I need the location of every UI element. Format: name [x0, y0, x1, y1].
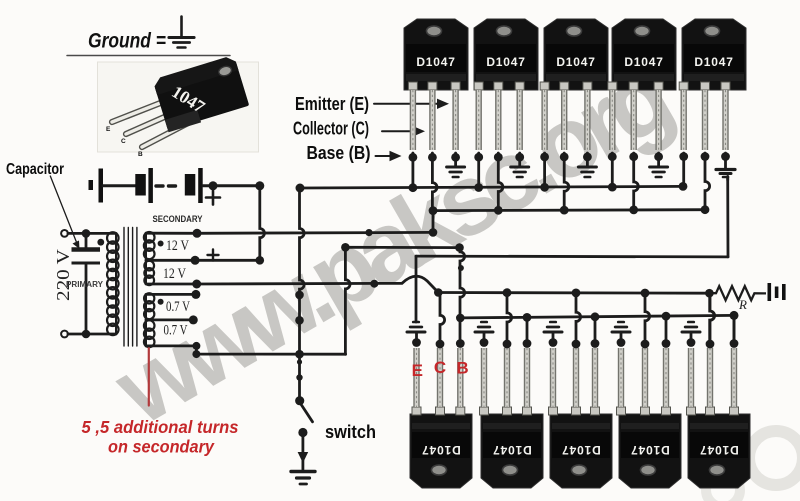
wire center tap to battery positive	[146, 256, 264, 265]
wire 12V top tap	[146, 229, 202, 238]
svg-text:PRIMARY: PRIMARY	[66, 280, 104, 289]
red pointer line from added turns to label	[148, 347, 150, 406]
wire emitter line corner down to bottom ground	[415, 256, 418, 322]
switch SW1 blade	[295, 396, 312, 422]
label R	[738, 297, 747, 312]
wire Q10 emitter to ground	[690, 333, 693, 343]
transistor Q1 (D1047, top row)	[404, 19, 468, 150]
label 0.7 V (third tap)	[166, 299, 190, 315]
wire Q9 emitter to ground	[620, 333, 623, 343]
capacitor C1 across primary	[72, 233, 101, 334]
junction dots on top collector bus	[429, 205, 710, 215]
transformer core	[124, 228, 137, 347]
wire Q8 base to bottom base bus	[594, 317, 597, 344]
divider line under legend	[67, 55, 230, 57]
svg-text:E: E	[412, 361, 423, 380]
ground (Q10 emitter, inverted)	[682, 322, 700, 332]
label 220 V (primary voltage)	[53, 249, 73, 301]
transistor Q8 (D1047, bottom row)	[549, 348, 613, 488]
svg-text:D1047: D1047	[556, 55, 595, 69]
wire emitter common line	[416, 255, 728, 259]
svg-text:0.7 V: 0.7 V	[166, 299, 190, 315]
wire switch vertical from base bus	[295, 188, 304, 401]
label Ground legend text	[88, 30, 166, 53]
wire Q3 emitter to ground	[586, 153, 589, 167]
wire Q7 base to bottom base bus	[526, 317, 529, 343]
svg-text:D1047: D1047	[699, 443, 738, 457]
pin dots Q6	[412, 338, 465, 348]
label switch	[325, 422, 376, 442]
ground (Q9 emitter, inverted)	[612, 322, 630, 332]
transformer primary terminal (top, open circle)	[61, 230, 68, 237]
wire Q7 collector to bottom collector bus	[507, 293, 512, 344]
node dot right of capacitor	[97, 239, 104, 246]
wire switch to ground with arrowhead	[298, 433, 309, 470]
wire 12V-top line to top collector bus	[197, 211, 437, 237]
svg-text:SECONDARY: SECONDARY	[153, 214, 204, 225]
wire Q9 collector to bottom collector bus	[645, 293, 650, 344]
wire Q8 collector to bottom collector bus	[576, 293, 581, 344]
wire 0.7V-bottom feed up (left vertical)	[345, 247, 350, 354]
wire Q5 emitter down	[726, 153, 728, 180]
wire Q2 base to top base bus	[477, 153, 480, 187]
svg-text:Base (B): Base (B)	[307, 143, 371, 163]
ground (Q6 emitter, inverted)	[407, 322, 425, 332]
wire Q3 base to top base bus	[543, 153, 546, 187]
wire Q1 base to top base bus	[411, 153, 414, 187]
svg-text:5 ,5 additional turns: 5 ,5 additional turns	[82, 417, 239, 437]
wire Q10 collector to bottom collector bus	[710, 293, 715, 344]
wire bottom base bus end down to Q10 base	[733, 315, 736, 343]
svg-text:on secondary: on secondary	[108, 437, 215, 457]
label B (red, base pin)	[456, 359, 468, 378]
svg-text:0.7 V: 0.7 V	[164, 323, 188, 339]
transistor Q10 (D1047, bottom row)	[687, 348, 751, 488]
pin dots Q5	[679, 152, 730, 161]
wire resistor node down to Q10 collector	[710, 293, 715, 344]
transistor Q5 (D1047, top row)	[679, 19, 746, 150]
wire Q6 collector up with hop	[440, 293, 445, 345]
pin dots Q7	[480, 338, 532, 348]
ground (below switch)	[291, 472, 315, 485]
svg-text:D1047: D1047	[416, 55, 455, 69]
junction dots on bottom collector bus	[503, 288, 650, 297]
wire 12V bottom tap	[146, 280, 201, 289]
battery B1 (cells in series)	[89, 168, 203, 203]
wire right emitter vertical	[726, 177, 729, 257]
svg-text:D1047: D1047	[624, 55, 663, 69]
wire Q2 collector to top collector bus	[498, 153, 503, 210]
wire Q8 emitter to ground	[552, 333, 555, 343]
svg-text:C: C	[121, 138, 126, 145]
switch SW1 bottom terminal	[298, 428, 307, 437]
wire Q4 emitter to ground	[657, 153, 660, 167]
label + (battery positive)	[206, 191, 220, 205]
wire battery positive vertical	[260, 186, 265, 260]
wire Q6 emitter to ground	[415, 333, 418, 343]
wire top base bus	[296, 184, 684, 193]
transistor Q9 (D1047, bottom row)	[617, 348, 682, 488]
label Emitter (E) with arrow	[295, 94, 449, 114]
node dot at 0.7V tap	[158, 299, 164, 305]
junction dots on top base bus	[409, 182, 688, 192]
label Collector (C) with arrow	[293, 119, 425, 139]
svg-text:D1047: D1047	[694, 55, 733, 69]
wire cross line to bottom base bus	[341, 243, 464, 252]
wire bottom collector bus	[434, 288, 709, 297]
pin dots Q10	[687, 338, 739, 348]
svg-text:switch: switch	[325, 422, 376, 442]
transformer primary terminal (bottom, open circle)	[61, 331, 68, 338]
svg-text:E: E	[106, 126, 111, 133]
pin dots Q2	[474, 153, 524, 162]
wire Q9 base to bottom base bus	[665, 316, 668, 343]
transistor Q2 (D1047, top row)	[474, 19, 538, 150]
pin dots Q1	[409, 153, 461, 162]
label 0.7 V (fourth tap)	[164, 323, 188, 339]
svg-text:D1047: D1047	[421, 443, 460, 457]
ground (Q2 emitter)	[511, 167, 529, 177]
wire Q1 emitter to ground	[454, 153, 457, 167]
svg-text:Collector (C): Collector (C)	[293, 119, 369, 139]
svg-text:220 V: 220 V	[53, 249, 73, 301]
svg-text:D1047: D1047	[492, 443, 531, 457]
ground (Q7 emitter, inverted)	[475, 322, 493, 332]
svg-text:R: R	[738, 297, 747, 312]
wire 0.7V middle tap	[146, 315, 198, 324]
transistor Q7 (D1047, bottom row)	[480, 348, 544, 488]
pin dots Q8	[549, 338, 600, 348]
resistor R	[705, 286, 766, 300]
svg-text:Capacitor: Capacitor	[6, 161, 64, 178]
transistor Q3 (D1047, top row)	[540, 19, 608, 150]
svg-text:D1047: D1047	[561, 443, 600, 457]
wire Q5 base to top base bus	[682, 153, 685, 186]
ground (Q8 emitter, inverted)	[544, 322, 562, 332]
label C (red, collector pin)	[434, 358, 446, 377]
svg-text:Emitter (E): Emitter (E)	[295, 94, 369, 114]
wire Q5 collector to top collector bus	[705, 153, 710, 210]
svg-text:B: B	[138, 151, 143, 158]
label Base (B) with arrow	[307, 143, 402, 163]
label 5,5 additional turns on secondary (red)	[82, 417, 239, 457]
wire Q10 base to bottom base bus	[733, 315, 736, 343]
label 12 V (top tap)	[166, 238, 189, 254]
battery B2 (right)	[768, 283, 786, 301]
svg-text:12 V: 12 V	[166, 238, 189, 254]
svg-text:B: B	[456, 359, 468, 378]
transformer secondary winding 2 (0.7V taps)	[144, 293, 155, 347]
junction dots on bottom base bus	[523, 311, 739, 322]
transistor Q6 (D1047, bottom row)	[410, 348, 472, 488]
svg-text:Ground =: Ground =	[88, 30, 166, 53]
svg-text:D1047: D1047	[630, 443, 669, 457]
svg-text:C: C	[434, 358, 446, 377]
photo of D1047 transistor with pin labels	[98, 55, 259, 158]
transformer primary winding coil	[107, 232, 119, 335]
transistor Q4 (D1047, top row)	[608, 19, 676, 150]
ground (Q3 emitter)	[578, 167, 596, 177]
label E (red, emitter pin)	[412, 361, 423, 380]
wire Q4 collector to top collector bus	[634, 153, 639, 210]
transformer secondary winding 1 (12V-0-12V)	[144, 232, 155, 285]
wire primary top terminal to coil	[68, 229, 116, 238]
ground (legend symbol)	[169, 17, 194, 48]
pin dots Q4	[608, 152, 663, 161]
wire 0.7V bottom tap with jog	[146, 342, 346, 359]
pin dots Q9	[617, 338, 671, 348]
wire bottom base bus	[460, 315, 734, 318]
label 12 V (second tap)	[163, 266, 186, 282]
ground (Q4 emitter)	[650, 167, 668, 177]
label + (center tap)	[208, 250, 219, 261]
wire Q3 collector to top collector bus	[564, 153, 569, 210]
ground (Q1 emitter)	[447, 167, 465, 177]
label SECONDARY	[153, 214, 204, 225]
svg-text:D1047: D1047	[486, 55, 525, 69]
wire bottom base feed vertical	[456, 248, 465, 343]
wire top collector bus	[433, 208, 705, 212]
wire Q2 emitter to ground	[518, 153, 521, 167]
ground (Q5 emitter)	[716, 170, 735, 178]
label Capacitor	[6, 161, 64, 178]
arrow from Capacitor label to capacitor C1	[50, 176, 79, 249]
wire primary bottom terminal to coil	[68, 330, 116, 339]
label PRIMARY	[66, 280, 104, 289]
wire 0.7V top tap	[146, 290, 200, 299]
wire Q1 collector to top collector bus	[432, 153, 437, 211]
wire 12V-bottom line with arc to bottom collector bus	[197, 276, 439, 292]
pin dots Q3	[540, 153, 592, 162]
node dot at 12V tap	[158, 241, 164, 247]
wire Q7 emitter to ground	[483, 333, 486, 343]
wire battery positive to node	[203, 181, 264, 190]
wire Q4 base to top base bus	[611, 153, 614, 186]
svg-text:12 V: 12 V	[163, 266, 186, 282]
